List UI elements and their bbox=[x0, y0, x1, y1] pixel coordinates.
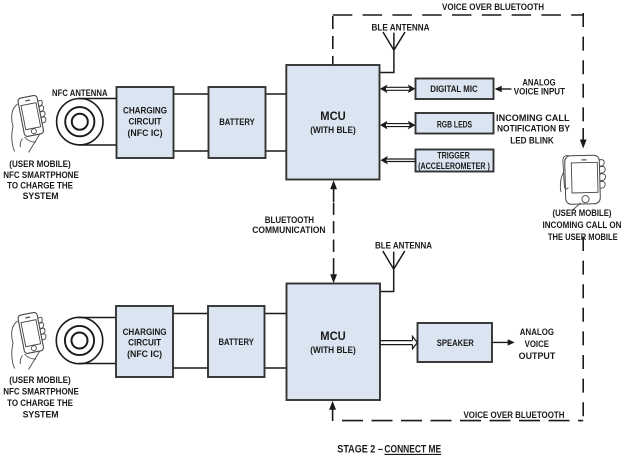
svg-text:BATTERY: BATTERY bbox=[219, 117, 255, 128]
svg-text:VOICE INPUT: VOICE INPUT bbox=[514, 87, 565, 98]
svg-text:LED BLINK: LED BLINK bbox=[510, 136, 554, 147]
svg-text:(USER MOBILE): (USER MOBILE) bbox=[9, 375, 71, 386]
svg-text:SYSTEM: SYSTEM bbox=[23, 410, 59, 421]
svg-text:MCU: MCU bbox=[320, 329, 346, 343]
svg-text:(ACCELEROMETER ): (ACCELEROMETER ) bbox=[418, 161, 490, 172]
svg-text:NFC ANTENNA: NFC ANTENNA bbox=[52, 88, 108, 99]
svg-text:CIRCUIT: CIRCUIT bbox=[129, 116, 162, 127]
svg-text:CHARGING: CHARGING bbox=[123, 327, 167, 338]
svg-text:RGB LEDS: RGB LEDS bbox=[437, 120, 473, 131]
svg-text:NOTIFICATION BY: NOTIFICATION BY bbox=[497, 124, 571, 135]
svg-text:BLE ANTENNA: BLE ANTENNA bbox=[372, 22, 430, 33]
svg-text:(USER MOBILE): (USER MOBILE) bbox=[553, 208, 612, 219]
svg-text:BATTERY: BATTERY bbox=[218, 337, 254, 348]
svg-text:(WITH BLE): (WITH BLE) bbox=[310, 125, 356, 136]
svg-text:COMMUNICATION: COMMUNICATION bbox=[252, 225, 325, 236]
svg-text:ANALOG: ANALOG bbox=[520, 327, 554, 338]
svg-text:OUTPUT: OUTPUT bbox=[519, 351, 556, 362]
svg-text:NFC SMARTPHONE: NFC SMARTPHONE bbox=[3, 387, 79, 398]
svg-text:VOICE OVER BLUETOOTH: VOICE OVER BLUETOOTH bbox=[442, 2, 544, 13]
svg-text:THE USER MOBILE: THE USER MOBILE bbox=[548, 232, 618, 243]
svg-text:VOICE: VOICE bbox=[525, 339, 550, 350]
svg-text:SPEAKER: SPEAKER bbox=[437, 338, 474, 349]
svg-text:NFC SMARTPHONE: NFC SMARTPHONE bbox=[3, 170, 79, 181]
svg-text:MCU: MCU bbox=[320, 109, 346, 123]
svg-text:CONNECT ME: CONNECT ME bbox=[384, 443, 441, 455]
svg-text:INCOMING CALL: INCOMING CALL bbox=[496, 113, 570, 124]
svg-text:SYSTEM: SYSTEM bbox=[23, 191, 59, 202]
svg-text:DIGITAL MIC: DIGITAL MIC bbox=[430, 84, 478, 95]
svg-text:INCOMING CALL ON: INCOMING CALL ON bbox=[543, 220, 622, 231]
svg-text:BLE ANTENNA: BLE ANTENNA bbox=[375, 241, 432, 252]
svg-text:(WITH BLE): (WITH BLE) bbox=[310, 345, 356, 356]
svg-text:VOICE OVER BLUETOOTH: VOICE OVER BLUETOOTH bbox=[464, 410, 565, 421]
svg-text:CHARGING: CHARGING bbox=[123, 105, 167, 116]
svg-text:TO CHARGE THE: TO CHARGE THE bbox=[7, 398, 73, 409]
svg-text:(NFC IC): (NFC IC) bbox=[128, 128, 163, 139]
svg-text:TO CHARGE THE: TO CHARGE THE bbox=[7, 181, 73, 192]
svg-text:(NFC IC): (NFC IC) bbox=[127, 349, 162, 360]
svg-text:(USER MOBILE): (USER MOBILE) bbox=[9, 159, 71, 170]
svg-text:CIRCUIT: CIRCUIT bbox=[128, 338, 161, 349]
svg-text:STAGE 2 –: STAGE 2 – bbox=[337, 443, 383, 455]
